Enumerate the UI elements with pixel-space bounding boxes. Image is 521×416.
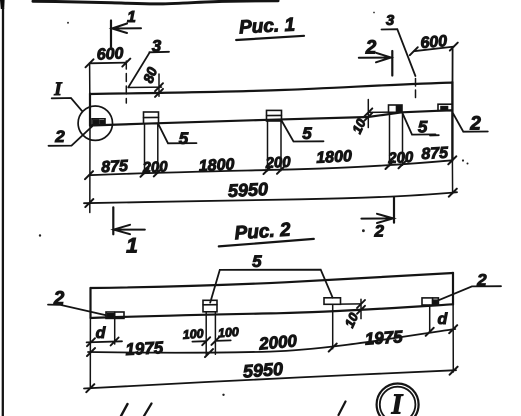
svg-text:d: d	[438, 311, 449, 328]
svg-text:100: 100	[218, 325, 240, 340]
svg-text:1: 1	[126, 235, 138, 258]
svg-text:2000: 2000	[257, 331, 298, 353]
svg-text:200: 200	[387, 149, 415, 167]
svg-text:1975: 1975	[364, 327, 404, 349]
svg-text:5: 5	[252, 252, 262, 271]
svg-text:2: 2	[365, 37, 377, 58]
svg-text:I: I	[53, 79, 62, 100]
svg-text:1: 1	[127, 9, 136, 26]
svg-text:2: 2	[373, 222, 384, 241]
svg-text:875: 875	[421, 145, 450, 163]
svg-text:5950: 5950	[227, 179, 268, 201]
svg-text:I: I	[391, 390, 404, 416]
svg-text:5: 5	[179, 129, 189, 148]
svg-text:d: d	[96, 325, 107, 342]
svg-text:3: 3	[386, 12, 395, 29]
svg-text:5950: 5950	[242, 359, 283, 382]
svg-text:80: 80	[140, 65, 160, 85]
svg-text:1800: 1800	[198, 156, 235, 175]
svg-text:2: 2	[54, 127, 65, 146]
svg-text:875: 875	[101, 158, 130, 176]
svg-text:Рис. 1: Рис. 1	[239, 15, 296, 39]
svg-text:1975: 1975	[125, 338, 164, 359]
svg-text:5: 5	[302, 124, 312, 143]
svg-text:200: 200	[264, 154, 292, 172]
svg-text:200: 200	[141, 158, 169, 176]
svg-text:600: 600	[96, 45, 124, 63]
svg-text:100: 100	[182, 327, 204, 342]
svg-text:1800: 1800	[316, 148, 353, 167]
